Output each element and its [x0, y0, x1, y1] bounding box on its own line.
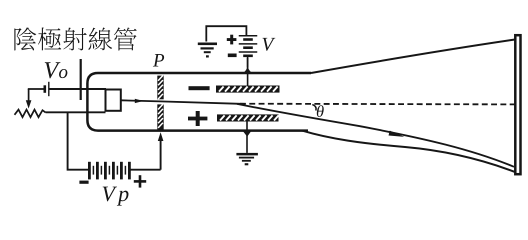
CRT envelope: funnel bottom — [302, 131, 515, 172]
label minus (upper plate) — [189, 86, 210, 90]
angle arc — [312, 105, 316, 111]
beam arrowhead — [389, 131, 406, 140]
anode plate P (hatched, with hole) — [157, 76, 163, 100]
label P — [153, 54, 164, 66]
glass seal bump (bottom) — [242, 130, 252, 137]
label minus (battery V) — [228, 54, 237, 58]
battery V — [239, 36, 258, 56]
rheostat (filament resistor) — [15, 110, 46, 118]
glass seal bump (top) — [241, 66, 253, 74]
wire: lower plate to ground — [246, 122, 248, 153]
upper deflecting plate (negative) — [216, 86, 280, 93]
CRT envelope: funnel top — [311, 40, 515, 74]
label theta — [317, 105, 324, 117]
battery Vp (accelerating supply) — [89, 162, 129, 180]
dashed undeflected axis — [240, 103, 515, 106]
label Vp — [103, 187, 129, 206]
lower deflecting plate (positive) — [217, 114, 279, 121]
wire: ground to battery V — [206, 26, 246, 41]
wire: cathode to Vp minus — [68, 112, 88, 169]
leader line from label to cathode — [80, 59, 82, 100]
ground (lower plate) — [236, 153, 258, 165]
fluorescent screen — [515, 35, 520, 174]
cathode / electron gun — [106, 90, 121, 111]
wiper arrow onto rheostat — [28, 89, 30, 101]
label plus (Vp) — [134, 175, 146, 187]
electron beam (deflected) — [237, 104, 514, 167]
label Vo — [45, 62, 68, 78]
label V — [263, 38, 276, 51]
wire: battery V to upper plate — [247, 58, 249, 86]
label minus (Vp) — [79, 181, 88, 184]
battery Vo (heater supply) — [28, 88, 44, 90]
label plus (battery V) — [227, 35, 237, 45]
electron beam (horizontal) — [121, 100, 240, 104]
ground (battery V) — [198, 43, 217, 58]
wire: Vp plus to plate P — [160, 139, 162, 170]
label: cathode ray tube (陰極射線管) — [14, 27, 136, 50]
label plus (lower plate) — [188, 111, 207, 126]
CRT envelope: neck outline — [87, 73, 311, 131]
